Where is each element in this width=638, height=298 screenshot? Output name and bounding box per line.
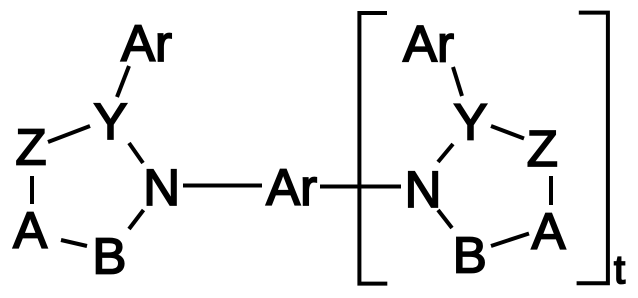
bond A-B (left) <box>61 240 87 246</box>
bond Y-N (left) <box>129 143 143 163</box>
bond B-N (left) <box>129 210 144 229</box>
svg-text:A: A <box>531 203 565 260</box>
bond Z-A (left) <box>30 176 34 204</box>
bond Y-Z (right) <box>491 126 524 139</box>
svg-text:B: B <box>92 228 126 285</box>
svg-text:N: N <box>405 161 442 218</box>
svg-text:t: t <box>614 248 625 292</box>
bond N-B (right) <box>438 210 452 228</box>
svg-text:Z: Z <box>527 120 558 177</box>
svg-text:Ar: Ar <box>266 159 317 216</box>
bond Ar-N (crossing left bracket) <box>320 185 401 189</box>
svg-text:A: A <box>13 202 47 259</box>
svg-text:Z: Z <box>15 119 46 176</box>
bond N-Ar (central) <box>183 184 262 188</box>
svg-text:Y: Y <box>453 94 487 151</box>
bond Ar-Y (right) <box>453 67 462 96</box>
bond Z-Y (left) <box>48 126 90 142</box>
svg-text:Ar: Ar <box>403 16 454 73</box>
svg-text:B: B <box>453 227 487 284</box>
svg-text:N: N <box>143 159 180 216</box>
bond Z-A (right) <box>549 176 553 205</box>
right bracket <box>577 13 608 284</box>
svg-text:Y: Y <box>93 93 127 150</box>
svg-text:Ar: Ar <box>121 15 172 72</box>
left bracket <box>359 13 387 284</box>
bond B-A (right) <box>491 234 529 247</box>
bond N-Y (right) <box>438 144 453 162</box>
bond Ar-Y (left) <box>117 66 129 97</box>
